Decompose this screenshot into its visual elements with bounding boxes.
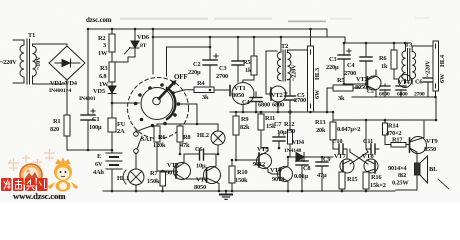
rotary switch SB (selector) — [128, 29, 212, 139]
right channel: capacitor C3' — [326, 43, 351, 84]
transistor VT9 (8550) — [410, 120, 438, 163]
capacitor C11 — [363, 138, 379, 154]
resistor R5 — [243, 37, 257, 80]
multivibrator: top rail — [333, 119, 436, 121]
capacitor C3 — [216, 37, 244, 82]
transistor VT6 (9014) — [268, 157, 293, 192]
right channel: caps row C5' 6800 6800 2700 — [367, 84, 425, 98]
resistor R4 — [194, 80, 230, 101]
capacitor C9 — [316, 156, 330, 191]
right channel: capacitor C4' — [344, 43, 372, 84]
svg-text:www.dzsc.com: www.dzsc.com — [13, 191, 66, 201]
resistor R9 — [233, 112, 250, 160]
transistor VT2 — [266, 86, 286, 113]
resistor R1 — [50, 84, 112, 150]
node: battery feed junction — [111, 102, 114, 105]
watermark: ghost text — [8, 149, 55, 171]
resistor R15 — [339, 172, 357, 192]
wire: switch to lamp branch — [179, 104, 198, 124]
lamp HL2 — [197, 124, 225, 145]
node: rail dots — [87, 28, 312, 193]
resistor R12 — [284, 112, 295, 157]
multivibrator cross wires — [350, 152, 368, 164]
capacitor C5 — [294, 92, 306, 104]
resistor R8 — [177, 124, 190, 155]
transformer T1 — [0, 32, 67, 84]
resistor R3 — [99, 62, 115, 88]
right channel: resistor R6' — [379, 43, 398, 79]
right channel: transistor VT3' (8050) — [343, 70, 381, 97]
resistor R17 — [391, 137, 410, 148]
diode VD5 — [79, 82, 116, 114]
resistor R7 — [147, 170, 166, 191]
ground — [220, 191, 232, 199]
scan noise overlay — [0, 0, 1, 1]
fluorescent tube HL4 — [433, 41, 446, 98]
switch SA1 — [134, 130, 152, 154]
wire: to rotary switch wiper input — [112, 102, 139, 104]
fuse FU — [108, 114, 126, 150]
resistor R11 — [258, 112, 276, 148]
transistor VT4 (8050) — [194, 162, 221, 191]
watermark: badge logo — [20, 164, 42, 186]
resistor R10 — [229, 159, 248, 193]
node: R1/C1/battery top junctions — [87, 149, 90, 152]
LED VD6 — [112, 29, 150, 62]
diode VD7 1N4148 — [284, 139, 333, 162]
battery E — [93, 150, 122, 191]
right channel: transistor VT4' — [398, 75, 412, 88]
switch contact dots — [134, 83, 181, 127]
fluorescent tube HL3 — [308, 29, 322, 113]
capacitor C8 — [294, 156, 310, 193]
wire: emitter rail (mid bus) — [230, 111, 333, 113]
transistor VT1 (8050) — [230, 80, 254, 113]
transistor VT5 (9012) — [235, 146, 272, 172]
resistor R16 — [363, 172, 386, 192]
wire: top rail A — [88, 28, 327, 30]
capacitor 6800 (second) — [272, 80, 296, 114]
capacitor C2 — [188, 37, 218, 90]
wire: switch to R4 — [173, 90, 194, 93]
wire: rail B — [153, 37, 345, 43]
wire: lamp-driver top bus — [157, 123, 218, 125]
transistor VT3 (9012) — [166, 154, 207, 180]
capacitor C10 — [332, 138, 347, 159]
transistor VT7 — [334, 153, 354, 173]
right channel: resistor R5' — [326, 77, 360, 113]
wire: switch to SA1 — [136, 126, 153, 132]
resistor R2 — [98, 29, 115, 62]
capacitor C1 — [81, 109, 102, 150]
faint header text — [86, 16, 429, 24]
wire: rail C right channel — [345, 42, 410, 44]
transformer T3 — [402, 42, 436, 85]
transistor VT8 — [362, 153, 378, 173]
resistor R13 — [315, 111, 336, 149]
capacitor C7 — [273, 121, 287, 149]
wire: right channel emitter bus — [352, 96, 436, 98]
wire: bridge + output up to top rail and down to C1 — [87, 29, 89, 63]
bridge rectifier VD1-VD4 — [49, 44, 85, 94]
wire: bottom rail — [103, 190, 395, 192]
speaker BL — [392, 156, 449, 190]
transformer T2 — [266, 36, 309, 90]
watermark: mascot — [48, 157, 78, 192]
right channel: capacitor C6' — [415, 78, 433, 97]
lamp HL1 — [117, 153, 144, 191]
node: mid bus dots — [235, 111, 292, 114]
watermark: red brand text — [1, 178, 48, 191]
resistor R6 — [153, 124, 176, 171]
capacitor C4 — [242, 92, 270, 113]
capacitor C6 — [184, 145, 219, 170]
resistor R14 — [383, 119, 402, 145]
